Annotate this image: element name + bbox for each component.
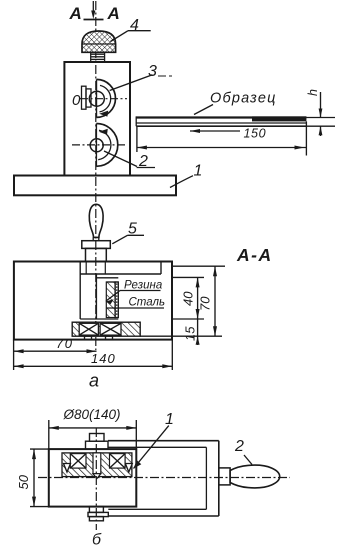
svg-text:2: 2 (234, 438, 244, 455)
svg-text:а: а (89, 371, 99, 391)
svg-text:б: б (92, 532, 102, 546)
svg-text:Образец: Образец (210, 91, 277, 107)
svg-text:50: 50 (16, 474, 31, 489)
svg-text:А-А: А-А (236, 245, 273, 265)
svg-text:1: 1 (194, 163, 203, 180)
svg-text:5: 5 (128, 221, 137, 238)
svg-text:150: 150 (244, 127, 267, 141)
svg-text:А: А (69, 4, 82, 23)
svg-text:40: 40 (181, 291, 196, 306)
svg-text:Ø80(140): Ø80(140) (63, 407, 121, 422)
svg-text:Резина: Резина (124, 280, 162, 292)
svg-text:140: 140 (91, 351, 116, 366)
svg-text:0: 0 (72, 92, 81, 109)
svg-text:70: 70 (56, 336, 73, 351)
svg-text:3: 3 (148, 63, 157, 80)
svg-text:h: h (306, 89, 320, 96)
svg-text:4: 4 (130, 17, 139, 34)
svg-text:15: 15 (183, 326, 198, 341)
svg-text:Сталь: Сталь (129, 297, 166, 309)
svg-text:70: 70 (198, 296, 213, 311)
svg-text:1: 1 (165, 411, 174, 428)
svg-text:2: 2 (138, 153, 148, 170)
svg-text:А: А (107, 4, 120, 23)
